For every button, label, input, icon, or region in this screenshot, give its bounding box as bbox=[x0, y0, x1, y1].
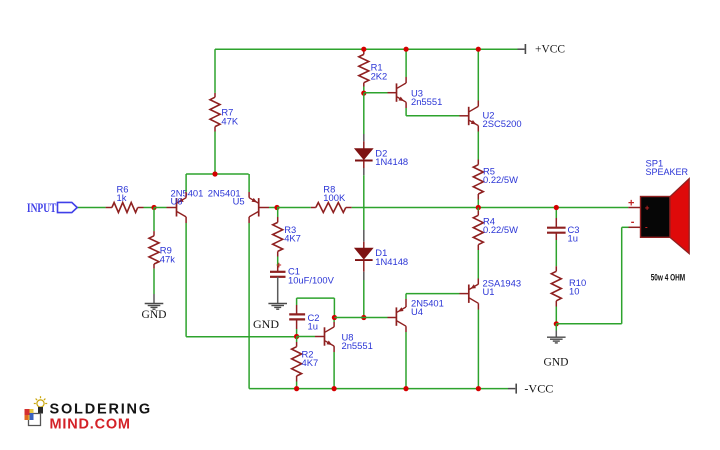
resistor R6 bbox=[112, 183, 138, 212]
svg-text:1u: 1u bbox=[568, 233, 578, 244]
resistor R5 bbox=[473, 165, 518, 194]
terminal -VCC bbox=[508, 381, 553, 395]
wire node A to R9 bbox=[153, 208, 155, 236]
svg-text:2n5551: 2n5551 bbox=[342, 340, 373, 351]
svg-text:-: - bbox=[631, 216, 635, 228]
node C junction bbox=[554, 321, 559, 326]
wire VAS collector row bbox=[334, 317, 396, 319]
wire node A to U6 base bbox=[154, 207, 177, 209]
svg-text:50w 4 OHM: 50w 4 OHM bbox=[651, 272, 686, 283]
svg-text:+: + bbox=[276, 260, 281, 270]
wire node C to ground bbox=[555, 324, 557, 337]
resistor R10 bbox=[551, 271, 586, 301]
node U8 collector junction bbox=[332, 315, 337, 320]
svg-text:1N4148: 1N4148 bbox=[375, 156, 408, 167]
wire common emitter node bbox=[186, 173, 249, 175]
resistor R2 bbox=[292, 347, 319, 376]
svg-text:47K: 47K bbox=[221, 115, 238, 126]
svg-text:GND: GND bbox=[142, 307, 167, 321]
svg-text:MIND.COM: MIND.COM bbox=[50, 417, 131, 433]
svg-text:SOLDERING: SOLDERING bbox=[50, 402, 152, 418]
transistor U4 bbox=[396, 298, 443, 327]
transistor U2 bbox=[469, 106, 522, 129]
svg-text:INPUT: INPUT bbox=[27, 201, 57, 215]
wire R2 to -VCC rail bbox=[296, 376, 298, 389]
capacitor C2 bbox=[289, 312, 319, 332]
wire VAS base to R2 bbox=[296, 337, 298, 347]
node output junction bbox=[476, 205, 481, 210]
svg-text:-VCC: -VCC bbox=[524, 381, 553, 395]
svg-text:SPEAKER: SPEAKER bbox=[646, 166, 689, 177]
svg-text:1N4148: 1N4148 bbox=[375, 256, 408, 267]
svg-text:0.22/5W: 0.22/5W bbox=[483, 174, 518, 185]
wire input to R6 bbox=[77, 207, 112, 209]
logo soldering mind bbox=[25, 396, 152, 432]
svg-text:U5: U5 bbox=[233, 196, 245, 207]
svg-text:0.22/5W: 0.22/5W bbox=[483, 224, 518, 235]
node R1 top junction bbox=[361, 47, 366, 52]
svg-text:2SC5200: 2SC5200 bbox=[483, 118, 522, 129]
wire U5 base bbox=[259, 207, 277, 209]
wire R3 to C1 bbox=[277, 251, 279, 271]
wire U6 collector bbox=[185, 217, 187, 337]
ground GND2 bbox=[253, 304, 287, 331]
terminal +VCC bbox=[518, 41, 566, 55]
wire R5 to output node bbox=[477, 194, 479, 208]
wire R10 to node C bbox=[555, 301, 557, 324]
wire U3 emitter to U2 base bbox=[406, 102, 468, 116]
capacitor C1 bbox=[270, 260, 335, 285]
wire +VCC rail bbox=[215, 48, 518, 50]
resistor R8 bbox=[311, 184, 352, 213]
node U4 collector rail junction bbox=[403, 386, 408, 391]
speaker SP1 bbox=[628, 158, 689, 284]
wire output to C3 bbox=[555, 208, 557, 227]
svg-text:U4: U4 bbox=[411, 306, 423, 317]
wire output node to R4 bbox=[477, 208, 479, 216]
svg-text:47k: 47k bbox=[160, 253, 175, 264]
transistor U3 bbox=[397, 83, 443, 107]
wire U4 emitter to U1 base bbox=[406, 294, 468, 307]
wire U4 collector bbox=[405, 326, 407, 388]
svg-text:+VCC: +VCC bbox=[535, 41, 565, 55]
svg-text:4K7: 4K7 bbox=[302, 357, 319, 368]
svg-text:2K2: 2K2 bbox=[371, 70, 388, 81]
node U3 collector junction bbox=[404, 47, 409, 52]
diode D2 bbox=[355, 148, 408, 168]
diode D2 leads bbox=[363, 93, 365, 149]
node B junction bbox=[274, 205, 279, 210]
node A junction bbox=[151, 205, 156, 210]
wire U5 collector to -VCC rail bbox=[249, 217, 508, 389]
svg-text:1k: 1k bbox=[117, 192, 127, 203]
resistor R7 bbox=[210, 97, 239, 126]
transistor U1 bbox=[469, 277, 521, 303]
wire D2 to D1 bbox=[363, 161, 365, 248]
wire U6 collector to VAS base bbox=[186, 336, 297, 338]
capacitor C3 bbox=[547, 224, 579, 244]
resistor R3 bbox=[273, 222, 301, 251]
ground GND3 bbox=[544, 337, 569, 368]
resistor R1 bbox=[359, 49, 387, 93]
wire node B to R3 bbox=[277, 208, 279, 223]
wire speaker plus pin bbox=[628, 207, 640, 209]
svg-text:10uF/100V: 10uF/100V bbox=[288, 274, 335, 285]
node C3 top junction bbox=[554, 205, 559, 210]
wire C3 to R10 bbox=[555, 233, 557, 272]
wire R4 to U1 emitter bbox=[477, 245, 479, 285]
wire R9 to ground bbox=[153, 264, 155, 303]
svg-text:GND: GND bbox=[253, 317, 279, 331]
node U2 collector junction bbox=[476, 47, 481, 52]
svg-text:U6: U6 bbox=[171, 196, 183, 207]
wire emitter node to R7 bbox=[214, 127, 216, 174]
wire U3 collector bbox=[405, 49, 407, 83]
node R2 rail junction bbox=[294, 386, 299, 391]
wire U3 base bbox=[364, 92, 396, 94]
svg-text:+: + bbox=[645, 203, 650, 212]
wire C2 bottom bbox=[296, 319, 298, 336]
wire U8 emitter bbox=[333, 346, 335, 389]
node U3 base junction bbox=[361, 91, 366, 96]
node D1 bottom junction bbox=[361, 315, 366, 320]
node emitter-R7 junction bbox=[212, 171, 217, 176]
node VAS base junction bbox=[294, 334, 299, 339]
node U8 emitter rail junction bbox=[332, 386, 337, 391]
wire U5 emitter bbox=[248, 174, 250, 198]
wire C1 to ground bbox=[277, 277, 279, 304]
resistor R9 bbox=[149, 236, 175, 264]
wire C2 top loop bbox=[297, 298, 335, 317]
svg-text:100K: 100K bbox=[323, 192, 346, 203]
ground GND1 bbox=[142, 304, 167, 322]
transistor U8 bbox=[325, 327, 373, 351]
wire node C to speaker minus bbox=[556, 227, 640, 323]
svg-text:U1: U1 bbox=[483, 286, 495, 297]
wire output line bbox=[352, 207, 629, 209]
resistor R4 bbox=[473, 215, 518, 244]
svg-text:1u: 1u bbox=[308, 321, 318, 332]
svg-text:2n5551: 2n5551 bbox=[411, 96, 442, 107]
diode D1 bbox=[355, 247, 408, 267]
wire node B to R8 bbox=[277, 207, 311, 209]
wire U8 collector bbox=[333, 318, 335, 327]
transistor U6 bbox=[171, 187, 204, 217]
wire R7 to +VCC rail bbox=[214, 49, 216, 97]
input port bbox=[27, 201, 77, 215]
node U1 collector rail junction bbox=[476, 386, 481, 391]
wire D1 to VAS collector node bbox=[363, 261, 365, 318]
svg-text:4K7: 4K7 bbox=[284, 233, 301, 244]
wire U2 emitter to R5 bbox=[477, 126, 479, 165]
svg-text:+: + bbox=[628, 198, 634, 210]
wire U6 emitter bbox=[185, 174, 187, 198]
svg-text:10: 10 bbox=[569, 286, 579, 297]
wire R6 to node A bbox=[138, 207, 154, 209]
wire U2 collector bbox=[477, 49, 479, 106]
wire VAS base to U8 bbox=[297, 336, 324, 338]
transistor U5 bbox=[208, 187, 259, 217]
svg-text:-: - bbox=[645, 222, 648, 231]
svg-text:GND: GND bbox=[544, 354, 569, 368]
wire U1 collector bbox=[477, 303, 479, 388]
